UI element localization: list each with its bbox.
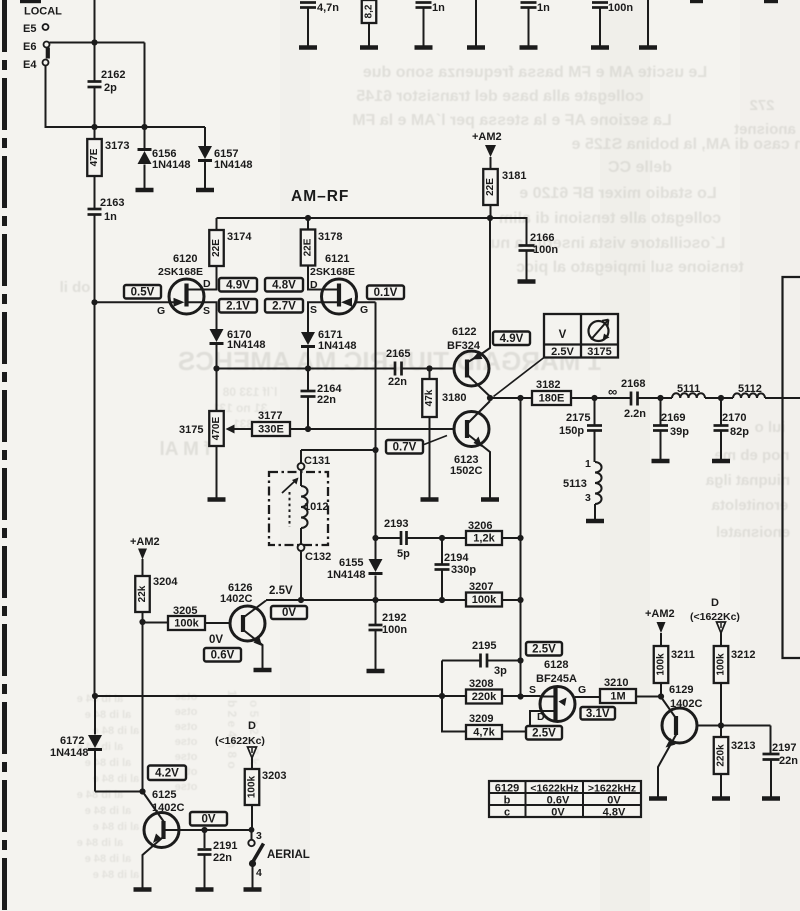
capacitor 1n (top a) [416, 1, 432, 4]
svg-text:∞: ∞ [608, 384, 617, 399]
svg-text:S: S [203, 305, 210, 317]
svg-text:0V: 0V [607, 795, 621, 807]
junction dot [91, 124, 97, 130]
svg-text:2.1V: 2.1V [226, 300, 250, 312]
svg-text:1012: 1012 [304, 501, 328, 513]
ground (2192) [367, 669, 385, 673]
junction dot [141, 124, 147, 130]
svg-text:22E: 22E [303, 238, 314, 256]
capacitor C2194 330p [441, 538, 443, 564]
svg-text:S: S [529, 684, 536, 696]
svg-text:2175: 2175 [566, 412, 590, 424]
svg-text:1 b 2 e 4 n 8 o: 1 b 2 e 4 n 8 o [225, 690, 239, 769]
svg-text:8,2: 8,2 [364, 4, 375, 18]
pointer line to instrument box [494, 358, 545, 397]
page fold dash-dot border line (left edge) [2, 0, 7, 911]
ground (2169) [652, 459, 670, 463]
svg-text:Le uscite AM e FM bassa freque: Le uscite AM e FM bassa frequenza sono d… [363, 64, 707, 81]
svg-text:al ib 84 e: al ib 84 e [85, 709, 131, 721]
wire source chain down to 3175 [216, 369, 218, 412]
junction dot [517, 535, 523, 541]
capacitor C2192 100n [375, 600, 377, 624]
ground (6126 emitter) [254, 668, 272, 672]
svg-text:0.1V: 0.1V [374, 287, 398, 299]
resistor R3173 47E [87, 139, 102, 176]
svg-text:f M Al: f M Al [159, 439, 210, 460]
diode D6155 1N4148 [369, 559, 383, 572]
junction dot (2193 row) [372, 535, 378, 541]
wire E4 down and right (y=127 rail) [46, 66, 206, 128]
svg-text:3182: 3182 [536, 379, 560, 391]
svg-text:collegate alla base del transi: collegate alla base del transistor 6145 [356, 88, 643, 105]
svg-text:5111: 5111 [677, 383, 700, 395]
wire 2193 row [376, 537, 401, 539]
junction dot [517, 597, 523, 603]
svg-text:AM–RF: AM–RF [291, 188, 349, 205]
resistor R3181 22E [483, 169, 498, 205]
svg-text:al ib 84 e: al ib 84 e [93, 821, 139, 833]
svg-text:6125: 6125 [152, 789, 176, 801]
FET Q6121 2SK168E [322, 279, 357, 314]
svg-text:6129: 6129 [495, 783, 519, 795]
svg-text:+AM2: +AM2 [472, 131, 502, 143]
junction dot [305, 215, 311, 221]
svg-text:3206: 3206 [468, 520, 492, 532]
svg-text:0.6V: 0.6V [211, 649, 235, 661]
voltage box 0V (6126) [271, 606, 307, 619]
svg-text:S: S [310, 304, 317, 316]
oscillator coil 1012 (dash-dot frame) [269, 472, 328, 545]
wire 2.5V bus y=600 [266, 599, 466, 601]
svg-text:2169: 2169 [661, 412, 685, 424]
gate wire to 6120 [95, 301, 179, 303]
wire to diode 6156 [144, 43, 146, 150]
svg-text:D: D [310, 279, 318, 291]
svg-text:2193: 2193 [384, 518, 408, 530]
svg-text:5113: 5113 [563, 478, 587, 490]
svg-text:3211: 3211 [671, 649, 695, 661]
svg-text:1N4148: 1N4148 [214, 159, 253, 171]
junction dot [487, 215, 493, 221]
wire [571, 397, 630, 399]
svg-text:22E: 22E [485, 178, 496, 196]
resistor R3180 47k [429, 369, 431, 380]
base wire 6125 (right side) [164, 829, 252, 831]
svg-text:E6: E6 [23, 41, 36, 53]
junction dot [439, 597, 445, 603]
svg-text:2SK168E: 2SK168E [310, 266, 355, 278]
svg-text:2194: 2194 [444, 552, 469, 564]
svg-text:272: 272 [749, 97, 774, 114]
svg-text:BF324: BF324 [447, 340, 481, 352]
ground (3180) [421, 497, 439, 501]
svg-text:Lo stadio mixer BF 6120 e: Lo stadio mixer BF 6120 e [519, 185, 717, 202]
svg-text:enoisnatel: enoisnatel [716, 524, 790, 541]
svg-text:2163: 2163 [100, 197, 124, 209]
svg-text:2.5V: 2.5V [269, 585, 293, 597]
transistor Q6122 BF324 [454, 351, 489, 386]
svg-text:0V: 0V [282, 607, 296, 619]
voltage box 4.2V [148, 766, 186, 781]
voltage box 0.6V [204, 648, 241, 662]
svg-text:1402C: 1402C [152, 802, 184, 814]
transistor Q6123 1502C [454, 412, 489, 447]
collector wire into 6125 [143, 792, 165, 823]
capacitor 4.7n (top, cut) [300, 1, 316, 4]
wire main left column x=94.5 [94, 0, 96, 81]
junction dot [372, 597, 378, 603]
svg-text:2162: 2162 [101, 69, 125, 81]
svg-text:2165: 2165 [386, 348, 410, 360]
AGC bus wire y=696 [95, 695, 541, 697]
base wire 6126 [205, 622, 231, 624]
switch AERIAL terminal 3 [251, 830, 253, 840]
wire [639, 397, 673, 399]
voltage table 6129 [489, 781, 641, 817]
svg-text:6121: 6121 [325, 253, 349, 265]
resistor R3203 100k [245, 769, 260, 805]
svg-text:V: V [559, 329, 567, 341]
junction dot [439, 535, 445, 541]
svg-text:1N4148: 1N4148 [50, 747, 89, 759]
wire 330E row to base of 6123 [290, 428, 454, 430]
svg-text:2192: 2192 [382, 612, 406, 624]
capacitor C2193 5p (series) [400, 531, 403, 545]
wire C131 row [301, 449, 376, 451]
resistor R3206 1,2k [466, 531, 502, 545]
voltage box 4.9V (6120 drain) [219, 278, 257, 292]
svg-text:al ib 84 e: al ib 84 e [77, 693, 123, 705]
voltage box 2.1V (6120 source) [219, 299, 257, 313]
junction dot [305, 365, 311, 371]
svg-text:220k: 220k [472, 691, 497, 703]
svg-text:2.7V: 2.7V [272, 300, 296, 312]
diode D6171 1N4148 [301, 332, 315, 345]
svg-text:2168: 2168 [621, 378, 645, 390]
svg-text:3175: 3175 [179, 424, 203, 436]
svg-text:1: 1 [585, 458, 591, 470]
diode D6170 1N4148 [210, 329, 224, 342]
ground (6125) [134, 887, 152, 891]
crop tick top-right 2 [764, 0, 778, 3]
wire E6 to node column [50, 42, 145, 44]
svg-text:AERIAL: AERIAL [267, 849, 310, 861]
svg-text:<1622kHz: <1622kHz [530, 783, 578, 795]
ground (switch) [244, 887, 262, 891]
junction dot gate of 6120 [91, 299, 97, 305]
junction dot [213, 365, 219, 371]
capacitor C2162 2p [88, 80, 102, 83]
svg-text:0.6V: 0.6V [547, 795, 570, 807]
svg-text:3175: 3175 [587, 346, 611, 358]
wire to next stage [765, 397, 800, 399]
junction dot (C131 row) [372, 447, 378, 453]
svg-text:3p: 3p [494, 665, 507, 677]
crop tick top-right 1 [690, 0, 703, 3]
svg-text:3180: 3180 [442, 392, 466, 404]
svg-text:otse: otse [175, 706, 198, 718]
junction dot [298, 597, 304, 603]
capacitor C2175 150p [594, 398, 596, 425]
svg-text:G: G [578, 684, 586, 696]
svg-text:100k: 100k [472, 594, 497, 606]
svg-text:delle CC: delle CC [608, 159, 672, 176]
svg-text:La sezione AF e la stessa per: La sezione AF e la stessa per l´AM e la … [352, 112, 672, 129]
diode D6156 1N4148 [138, 148, 152, 151]
svg-text:0.5V: 0.5V [131, 286, 155, 298]
svg-text:2170: 2170 [722, 412, 746, 424]
voltage box 0.5V [124, 285, 161, 299]
svg-text:3204: 3204 [153, 576, 178, 588]
gate wire 6128 to 3210 [575, 696, 600, 698]
svg-text:4,7k: 4,7k [473, 727, 495, 739]
svg-text:4,7n: 4,7n [317, 2, 339, 14]
svg-text:470E: 470E [211, 416, 222, 440]
svg-text:1N4148: 1N4148 [227, 339, 266, 351]
svg-text:0V: 0V [551, 807, 565, 819]
capacitor 100n (top) [592, 1, 608, 4]
capacitor C2191 22n [204, 830, 206, 848]
svg-text:22n: 22n [213, 852, 232, 864]
svg-text:1402C: 1402C [220, 593, 252, 605]
svg-text:180E: 180E [539, 393, 565, 405]
svg-text:al ib 84 e: al ib 84 e [85, 805, 131, 817]
coil L5113 with taps 1,3 [594, 432, 596, 463]
svg-text:100n: 100n [608, 2, 633, 14]
junction dot [718, 722, 724, 728]
svg-text:0V: 0V [201, 813, 215, 825]
junction dot [718, 395, 724, 401]
svg-text:6129: 6129 [669, 684, 693, 696]
svg-text:1n: 1n [104, 211, 117, 223]
svg-text:22k: 22k [137, 585, 148, 602]
voltage box 3.1V [581, 707, 616, 720]
capacitor 1n (top b) [521, 1, 537, 4]
capacitor C2165 22n (series) [394, 362, 397, 376]
svg-text:2.5V: 2.5V [532, 643, 556, 655]
voltage box 4.8V (6121 drain) [265, 278, 303, 292]
junction dot (3205 tap) [139, 619, 145, 625]
svg-text:D: D [711, 597, 719, 609]
svg-text:2197: 2197 [772, 742, 796, 754]
ground (6156) [136, 188, 154, 192]
wire [94, 88, 96, 139]
svg-text:220k: 220k [716, 744, 727, 767]
svg-text:1n: 1n [537, 2, 550, 14]
svg-text:100k: 100k [247, 775, 258, 798]
ground (6157) [196, 188, 214, 192]
svg-text:150p: 150p [559, 425, 584, 437]
svg-text:E4: E4 [23, 59, 37, 71]
svg-text:1M: 1M [610, 691, 625, 703]
drain wire 6121 [308, 266, 337, 290]
switch lever AERIAL [253, 844, 264, 862]
resistor R3210 1M [600, 689, 636, 703]
svg-text:100k: 100k [716, 653, 727, 676]
svg-text:G: G [360, 304, 368, 316]
wire [705, 397, 733, 399]
svg-text:ob il: ob il [60, 279, 91, 296]
transistor Q6129 1402C [662, 708, 697, 743]
drain wire 6120 [188, 266, 217, 290]
switch terminal 4 [249, 860, 256, 867]
ground (6129) [649, 796, 667, 800]
svg-text:3181: 3181 [502, 170, 526, 182]
instrument box V-meter 2.5V / 3175 [544, 314, 618, 358]
svg-text:+AM2: +AM2 [130, 536, 160, 548]
junction dot [517, 395, 523, 401]
wire x=142.5 down to 6125 collector [142, 612, 144, 792]
svg-text:2SK168E: 2SK168E [158, 266, 203, 278]
svg-text:3173: 3173 [105, 140, 129, 152]
voltage box 0.7V with pointer to 6123 [386, 440, 423, 454]
source wire 6121 [308, 302, 337, 332]
collector wire 6129 [697, 725, 771, 727]
emitter wire 6125 to ground [143, 838, 163, 888]
base wire into 6129 [661, 697, 677, 719]
svg-text:4: 4 [256, 867, 262, 879]
vertical feedback line x=520.5 [520, 398, 522, 697]
coil L5111 [672, 393, 705, 398]
wire to 3205 [143, 622, 169, 624]
svg-text:3212: 3212 [731, 649, 755, 661]
svg-text:3.1V: 3.1V [586, 708, 610, 720]
svg-text:100k: 100k [174, 618, 199, 630]
tuning arrow inside 1012 [282, 481, 296, 494]
resistor R3178 22E (drain load 6121) [307, 218, 309, 230]
diode D6157 1N4148 [198, 146, 212, 159]
coil L5112 [733, 393, 765, 398]
svg-text:6128: 6128 [544, 659, 568, 671]
svg-text:39p: 39p [670, 426, 689, 438]
svg-text:3174: 3174 [227, 231, 252, 243]
voltage box 0.1V (gate 6121) [367, 286, 404, 300]
svg-text:1402C: 1402C [670, 698, 702, 710]
wire stub to ground (top right) [647, 0, 649, 46]
resistor R3209 4,7k loop [442, 696, 466, 732]
junction dot (6125 collector) [139, 788, 145, 794]
svg-text:G: G [157, 305, 165, 317]
voltage box 2.5V (below 6128) [526, 726, 562, 740]
wire left column continues to gate row and AGC bus [94, 216, 96, 697]
svg-text:47k: 47k [424, 389, 435, 406]
svg-text:6172: 6172 [60, 735, 84, 747]
gate wire 6121 [356, 301, 376, 303]
svg-text:3203: 3203 [262, 770, 286, 782]
svg-text:47E: 47E [89, 148, 100, 166]
svg-text:otse: otse [175, 781, 198, 793]
capacitor C2164 22n [307, 369, 309, 391]
voltage box 0V (6125) [190, 812, 227, 826]
ground (2170) [712, 459, 730, 463]
svg-text:+AM2: +AM2 [645, 608, 675, 620]
svg-text:LOCAL: LOCAL [24, 6, 62, 18]
transistor Q6126 1402C [230, 606, 265, 641]
svg-text:1N4148: 1N4148 [152, 159, 191, 171]
junction dot [517, 693, 523, 699]
svg-text:1N4148: 1N4148 [318, 340, 357, 352]
wire [94, 176, 96, 208]
junction dot [91, 39, 97, 45]
svg-text:4.8V: 4.8V [603, 807, 626, 819]
resistor R3207 100k [466, 593, 502, 607]
svg-text:3208: 3208 [469, 678, 493, 690]
svg-text:al ib 84 e: al ib 84 e [93, 773, 139, 785]
svg-text:4.9V: 4.9V [226, 279, 250, 291]
FET Q6120 2SK168E [169, 279, 204, 314]
switch lever E6-E4 [46, 48, 50, 59]
svg-text:22n: 22n [779, 755, 798, 767]
junction dot [305, 426, 311, 432]
svg-text:4.2V: 4.2V [155, 767, 179, 779]
svg-text:100n: 100n [533, 244, 558, 256]
svg-text:3205: 3205 [173, 605, 197, 617]
ground (2166) [518, 279, 536, 283]
wire to diode 6157 [204, 127, 206, 146]
wire node to 3182 [490, 397, 532, 399]
svg-text:3: 3 [585, 492, 591, 504]
source wire 6120 [188, 302, 217, 329]
capacitor C2197 22n [770, 726, 772, 754]
voltage box 2.5V (above 6128) [526, 642, 562, 656]
node dot 6122/6123/3182 [487, 395, 493, 401]
svg-text:330E: 330E [258, 424, 284, 436]
svg-text:1502C: 1502C [450, 465, 482, 477]
svg-text:anoisnet: anoisnet [734, 121, 796, 138]
capacitor C2195 3p loop [441, 661, 443, 697]
svg-text:(<1622Kc): (<1622Kc) [215, 735, 265, 747]
svg-text:b: b [504, 795, 511, 807]
resistor R3204 22k [135, 576, 150, 612]
svg-text:otse: otse [175, 751, 198, 763]
svg-text:2.5V: 2.5V [551, 346, 574, 358]
ground (3175) [208, 497, 226, 501]
svg-text:D: D [203, 278, 211, 290]
svg-text:22E: 22E [211, 239, 222, 257]
wire to 6125 collector node [95, 791, 143, 793]
svg-text:1n: 1n [432, 2, 445, 14]
svg-text:otse: otse [175, 721, 198, 733]
supply bus wire y=218 [217, 218, 527, 245]
svg-text:In caso di AM, la bobina S125: In caso di AM, la bobina S125 e [572, 136, 800, 153]
capacitor C2166 100n [519, 244, 535, 247]
svg-text:6155: 6155 [339, 557, 363, 569]
resistor R3208 220k [466, 690, 502, 704]
svg-text:3213: 3213 [731, 740, 755, 752]
svg-text:eronitelota: eronitelota [711, 497, 788, 514]
svg-text:1,2k: 1,2k [473, 533, 495, 545]
svg-text:3178: 3178 [318, 231, 342, 243]
svg-text:al ib 84 e: al ib 84 e [85, 757, 131, 769]
junction dot [657, 395, 663, 401]
capacitor C2170 82p [720, 398, 722, 425]
terminal C132 [298, 544, 305, 551]
svg-text:3177: 3177 [258, 410, 282, 422]
svg-text:al ib 84 e: al ib 84 e [85, 853, 131, 865]
wiper arrow into 3175 [233, 428, 252, 430]
crop tick top-left [20, 0, 41, 3]
svg-text:5112: 5112 [738, 383, 762, 395]
svg-text:al ib 84 e: al ib 84 e [77, 837, 123, 849]
junction dot [517, 657, 523, 663]
resistor R3177 330E [252, 422, 290, 436]
resistor 8.2 (top, cut) [362, 0, 377, 23]
svg-text:0.7V: 0.7V [393, 441, 417, 453]
signal wire y=368.5 [217, 368, 395, 370]
junction dot (2191 tap) [201, 827, 207, 833]
next-stage block outline (right edge) [783, 277, 800, 658]
svg-text:C132: C132 [305, 551, 331, 563]
